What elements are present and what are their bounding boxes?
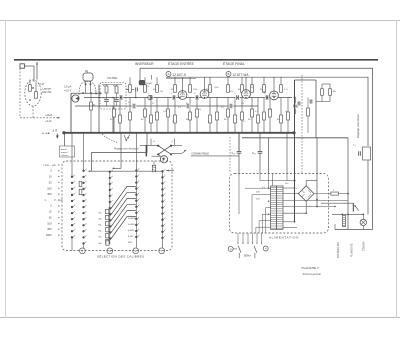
svg-text:Réglage zéro électrique: Réglage zéro électrique [114, 148, 139, 151]
svg-text:FILTRE: FILTRE [108, 76, 118, 80]
svg-text:R₁₅: R₁₅ [238, 89, 241, 91]
svg-text:47k: 47k [146, 86, 149, 88]
svg-text:R₉: R₉ [171, 89, 174, 91]
svg-text:R₄: R₄ [110, 119, 113, 121]
svg-text:220k: 220k [193, 89, 197, 91]
svg-text:I mA … µA: I mA … µA [44, 164, 56, 167]
svg-text:6,5Ω: 6,5Ω [128, 236, 133, 238]
svg-text:Rb₁: Rb₁ [99, 225, 103, 227]
svg-text:Rb₁: Rb₁ [99, 213, 103, 215]
svg-text:300: 300 [47, 227, 52, 231]
svg-text:0,0065Ω: 0,0065Ω [128, 218, 136, 220]
svg-text:PLANCHE 7: PLANCHE 7 [302, 266, 319, 270]
svg-text:R₂: R₂ [103, 86, 106, 88]
svg-text:0,65Ω: 0,65Ω [128, 230, 134, 232]
svg-text:C₇: C₇ [172, 121, 174, 123]
svg-text:Ra=7Ω: Ra=7Ω [43, 90, 52, 94]
svg-text:+0,5 V: +0,5 V [64, 89, 72, 92]
svg-text:C₂₄: C₂₄ [252, 153, 256, 155]
svg-text:0,5 µA: 0,5 µA [64, 85, 72, 88]
svg-text:COMMUTABLE: COMMUTABLE [192, 153, 210, 156]
svg-text:INVERSEUR: INVERSEUR [135, 62, 154, 66]
svg-text:TÉMOIN: TÉMOIN [363, 241, 366, 251]
svg-text:+40µA: +40µA [45, 114, 53, 117]
svg-text:47k: 47k [230, 91, 233, 93]
svg-text:12 AT7-WA: 12 AT7-WA [233, 73, 250, 77]
svg-text:50Hz: 50Hz [244, 254, 252, 258]
svg-text:0,47: 0,47 [40, 83, 45, 86]
svg-text:100: 100 [47, 221, 52, 225]
svg-text:R₁₁: R₁₁ [186, 103, 189, 105]
svg-text:borne: borne [61, 148, 67, 151]
svg-text:masse: masse [61, 152, 68, 154]
svg-text:R₁₃: R₁₃ [224, 119, 227, 121]
svg-text:10V: 10V [256, 199, 260, 201]
svg-text:100pF: 100pF [146, 83, 153, 85]
svg-text:A: A [168, 72, 170, 76]
svg-text:Rb₁: Rb₁ [99, 243, 103, 245]
svg-text:± 0: ± 0 [53, 128, 58, 132]
svg-text:châssis: châssis [61, 155, 69, 157]
svg-text:R₅: R₅ [126, 89, 129, 91]
svg-text:2,2k: 2,2k [163, 111, 167, 113]
svg-text:4,7k: 4,7k [284, 89, 288, 91]
svg-text:1k: 1k [285, 111, 287, 113]
svg-text:100k: 100k [214, 87, 218, 89]
svg-text:SÉLECTION DES CALIBRES: SÉLECTION DES CALIBRES [97, 254, 144, 259]
svg-text:1k: 1k [199, 109, 201, 111]
svg-text:1M: 1M [250, 87, 253, 89]
svg-text:R₇: R₇ [153, 89, 156, 91]
svg-text:1000: 1000 [46, 233, 52, 237]
svg-text:+4,1V: +4,1V [45, 120, 52, 123]
svg-text:20V: 20V [256, 192, 260, 194]
svg-text:ÉTAGE FINAL: ÉTAGE FINAL [223, 61, 245, 66]
svg-text:1M: 1M [160, 91, 163, 93]
svg-text:R₁₆: R₁₆ [248, 119, 251, 121]
svg-text:Rb₁: Rb₁ [99, 237, 103, 239]
svg-text:C₂₉: C₂₉ [353, 145, 356, 147]
svg-text:ALIMENTATION: ALIMENTATION [269, 236, 299, 240]
svg-text:FILAMENTS: FILAMENTS [351, 243, 354, 257]
svg-text:12 AX7-S: 12 AX7-S [173, 73, 186, 77]
svg-text:Rb₁: Rb₁ [99, 231, 103, 233]
svg-text:B: B [228, 72, 230, 76]
svg-text:VOLTAGE 220: VOLTAGE 220 [337, 242, 340, 258]
svg-text:22k: 22k [262, 91, 265, 93]
svg-text:C₉: C₉ [208, 121, 210, 123]
svg-text:Rb₁: Rb₁ [99, 219, 103, 221]
svg-text:ÉTAGE ENTRÉE: ÉTAGE ENTRÉE [168, 61, 195, 66]
svg-text:R₈: R₈ [152, 103, 154, 105]
svg-text:Réglage Gain élevé: Réglage Gain élevé [356, 114, 360, 138]
svg-text:300: 300 [47, 192, 52, 196]
svg-text:10k: 10k [241, 103, 244, 105]
svg-text:R₂₀: R₂₀ [277, 119, 280, 121]
svg-text:R₆: R₆ [141, 119, 144, 121]
svg-text:R₃: R₃ [113, 86, 116, 88]
svg-text:100: 100 [47, 186, 52, 190]
svg-text:R₁₀: R₁₀ [186, 119, 189, 121]
svg-text:C₂₃: C₂₃ [232, 153, 236, 155]
svg-text:Schéma général: Schéma général [303, 273, 322, 276]
svg-text:0,065Ω: 0,065Ω [128, 224, 135, 226]
svg-text:C₁₁: C₁₁ [243, 121, 246, 123]
svg-text:65Ω: 65Ω [128, 242, 132, 244]
svg-text:R₂₈: R₂₈ [333, 91, 336, 93]
